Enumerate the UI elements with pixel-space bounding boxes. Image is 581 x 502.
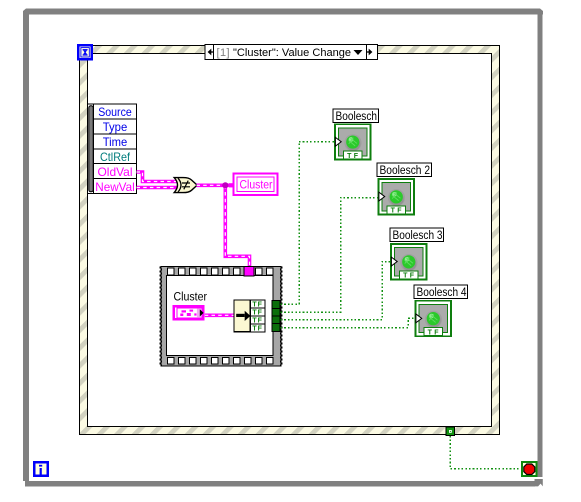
unbundle node	[234, 300, 265, 332]
svg-text:OldVal: OldVal	[98, 165, 133, 179]
svg-text:Cluster: Cluster	[174, 292, 208, 304]
svg-text:Source: Source	[98, 105, 132, 119]
wire to Boolesch	[281, 142, 335, 305]
wire OldVal	[137, 172, 181, 182]
event structure border	[80, 46, 500, 435]
svg-text:Boolesch 4: Boolesch 4	[417, 287, 468, 299]
svg-text:Boolesch 2: Boolesch 2	[380, 165, 431, 177]
wire control to unbundle	[205, 313, 236, 317]
sequence tunnels green	[272, 301, 280, 332]
iteration terminal i	[34, 462, 48, 476]
svg-text:TF: TF	[428, 329, 441, 336]
wire gate output	[197, 184, 233, 188]
boolean indicator Boolesch 3	[390, 228, 444, 280]
svg-text:TF: TF	[347, 153, 360, 160]
boolean indicator Boolesch	[333, 109, 379, 160]
wire junction	[222, 182, 228, 188]
sequence tunnel magenta	[244, 267, 254, 276]
svg-text:NewVal: NewVal	[95, 180, 135, 194]
timeout terminal (hourglass)	[78, 45, 92, 59]
event case selector label	[205, 45, 378, 60]
boolean indicator Boolesch 4	[414, 285, 468, 337]
event tunnel green	[446, 427, 454, 435]
cluster control	[174, 306, 204, 319]
svg-text:[1]: [1]	[217, 47, 230, 59]
wire junction to tunnel	[225, 185, 249, 267]
svg-text:Boolesch: Boolesch	[336, 111, 378, 123]
svg-text:"Cluster": Value Change: "Cluster": Value Change	[233, 47, 351, 59]
svg-text:Cluster: Cluster	[240, 180, 273, 192]
wire tunnel to stop	[450, 436, 520, 469]
boolean indicator Boolesch 2	[377, 163, 432, 215]
conditional stop terminal	[522, 462, 537, 476]
svg-text:TF: TF	[403, 273, 416, 280]
wire NewVal	[137, 186, 181, 190]
cluster indicator	[229, 174, 278, 196]
wire to Boolesch 3	[281, 262, 391, 320]
not-equal gate	[174, 178, 196, 193]
wire to Boolesch 4	[281, 318, 416, 327]
svg-text:Type: Type	[103, 120, 128, 134]
flat sequence frame	[160, 266, 282, 366]
svg-text:Time: Time	[103, 135, 128, 149]
svg-text:Boolesch 3: Boolesch 3	[393, 230, 443, 242]
svg-text:TF: TF	[252, 325, 263, 332]
wire to Boolesch 2	[281, 198, 379, 313]
svg-text:CtlRef: CtlRef	[100, 150, 131, 164]
svg-text:TF: TF	[391, 208, 404, 215]
event data node	[88, 104, 137, 194]
